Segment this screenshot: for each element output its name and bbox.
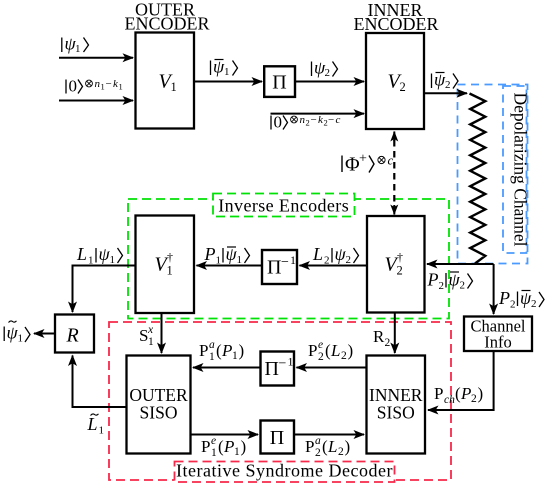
svg-text:1: 1: [288, 355, 294, 369]
label ket psi1-bar: [211, 57, 238, 79]
svg-text:ch: ch: [444, 394, 455, 406]
svg-text:2: 2: [397, 264, 403, 278]
svg-text:1: 1: [209, 351, 215, 363]
label R2 syndrome: [373, 327, 391, 349]
svg-text:2: 2: [471, 393, 477, 405]
svg-text:0: 0: [274, 113, 283, 132]
svg-text:−: −: [328, 114, 334, 126]
svg-text:a: a: [315, 435, 321, 447]
wire outer siso left then up to R: [73, 356, 127, 408]
svg-text:2: 2: [510, 299, 516, 311]
svg-text:1: 1: [101, 82, 105, 92]
wire outer siso to PI (decoder): [191, 434, 258, 436]
svg-text:R: R: [66, 325, 79, 347]
svg-text:c: c: [388, 153, 394, 168]
svg-text:Φ: Φ: [345, 154, 360, 176]
svg-text:1: 1: [75, 43, 81, 55]
wire psi1 input arrow: [59, 57, 133, 59]
svg-text:P: P: [460, 384, 471, 403]
recovery box R: [55, 315, 94, 353]
svg-text:ENCODER: ENCODER: [354, 14, 439, 34]
svg-text:1: 1: [211, 447, 217, 459]
svg-text:2: 2: [306, 118, 310, 128]
svg-text:−: −: [279, 357, 287, 372]
svg-text:2: 2: [324, 255, 330, 267]
label ket psi1 input: [62, 34, 89, 56]
label ket psi2-bar: [432, 70, 459, 92]
svg-text:): ): [241, 437, 247, 456]
svg-text:): ): [348, 341, 354, 360]
inverse permutation box PI-inverse (decoder): [261, 352, 295, 386]
label L1 ket psi1: [76, 244, 123, 267]
svg-text:1: 1: [167, 264, 173, 278]
label P1e(P1): [201, 435, 246, 459]
label P1 ket psi1-bar: [204, 244, 250, 267]
svg-text:2: 2: [531, 298, 537, 310]
svg-text:Π: Π: [272, 72, 286, 94]
svg-text:0: 0: [69, 77, 78, 96]
svg-text:P: P: [434, 384, 443, 403]
svg-text:): ): [345, 437, 351, 456]
iterative syndrome decoder dashed box (red): [109, 322, 451, 480]
inverse permutation box PI-minus (middle): [262, 250, 297, 284]
svg-text:1: 1: [234, 446, 240, 458]
wire V2 output to channel: [425, 92, 468, 94]
label ket phi+ entanglement: [342, 152, 394, 176]
svg-text:2: 2: [460, 280, 466, 292]
svg-text:1: 1: [216, 255, 222, 267]
svg-text:Iterative Syndrome Decoder: Iterative Syndrome Decoder: [176, 461, 393, 481]
svg-text:L: L: [327, 437, 337, 456]
label Pch(P2): [434, 384, 483, 406]
svg-text:2: 2: [341, 350, 347, 362]
svg-text:2: 2: [325, 67, 331, 79]
svg-text:1: 1: [232, 350, 238, 362]
svg-text:1: 1: [224, 66, 230, 78]
svg-text:): ): [239, 341, 245, 360]
svg-text:1: 1: [119, 82, 123, 92]
wire channel corner down to channel info: [493, 264, 495, 314]
label P2e(L2): [308, 339, 353, 363]
wire PI to V2: [296, 81, 365, 83]
depolarizing channel zigzag: [470, 94, 486, 264]
svg-text:†: †: [397, 250, 403, 264]
svg-text:e: e: [211, 435, 216, 447]
svg-text:Depolarizing Channel: Depolarizing Channel: [511, 92, 531, 246]
svg-text:−: −: [106, 78, 112, 90]
svg-text:a: a: [209, 339, 215, 351]
wire V1 to PI: [195, 81, 263, 83]
svg-text:P: P: [498, 288, 510, 308]
svg-text:1: 1: [88, 255, 94, 267]
wire V1-dagger left then down to R: [73, 266, 136, 313]
svg-text:P: P: [308, 341, 317, 360]
inverse encoders label box (green): [213, 194, 355, 217]
svg-text:1: 1: [99, 425, 105, 437]
svg-text:P: P: [204, 244, 216, 264]
label L2 ket psi2: [312, 244, 359, 267]
svg-text:P: P: [223, 437, 234, 456]
wire R output left: [34, 333, 54, 335]
inner siso box: [367, 356, 426, 454]
label P2a(L2): [305, 435, 350, 459]
svg-text:2: 2: [318, 351, 324, 363]
wire entanglement dashed phi+ between V2 and V2-dagger: [390, 131, 398, 215]
svg-text:Π: Π: [265, 358, 279, 380]
label P1a(P1): [199, 339, 244, 363]
iterative syndrome decoder label box (red): [175, 461, 395, 483]
svg-text:ENCODER: ENCODER: [125, 14, 210, 34]
svg-text:P: P: [427, 270, 439, 290]
svg-text:+: +: [359, 152, 367, 167]
svg-text:Info: Info: [484, 333, 512, 352]
svg-text:R: R: [373, 327, 385, 346]
permutation box PI (top): [264, 66, 295, 97]
svg-text:P: P: [305, 437, 314, 456]
label INNER ENCODER title: [354, 0, 439, 34]
wire inner siso to PI-inverse: [297, 367, 367, 369]
svg-text:x: x: [147, 324, 154, 336]
label OUTER ENCODER title: [125, 0, 210, 34]
encoder V2 box: [366, 33, 424, 129]
label P2 ket psi2-bar (to channel info): [498, 288, 544, 311]
wire PI to inner siso (decoder): [295, 434, 365, 436]
label L1-tilde: [87, 414, 105, 437]
svg-text:SISO: SISO: [140, 403, 178, 423]
inverse encoder V1-dagger box: [136, 216, 195, 314]
svg-text:e: e: [318, 339, 323, 351]
svg-text:1: 1: [148, 336, 154, 348]
svg-text:2: 2: [315, 447, 321, 459]
wire V2-dagger to PI-minus: [300, 265, 367, 267]
wire channel info down then left to inner siso: [428, 352, 494, 411]
svg-text:L: L: [76, 244, 87, 264]
svg-text:L: L: [330, 341, 340, 360]
label S1x syndrome: [139, 324, 154, 348]
label ket psi1-tilde output: [4, 321, 30, 345]
svg-text:†: †: [167, 250, 173, 264]
inverse encoder V2-dagger box: [367, 216, 425, 313]
label ket zero n2-k2-c input: [271, 113, 341, 132]
wire PI-inverse to outer siso: [193, 367, 260, 369]
svg-text:Inverse Encoders: Inverse Encoders: [218, 196, 349, 216]
svg-text:2: 2: [385, 337, 391, 349]
svg-text:c: c: [336, 114, 341, 126]
svg-text:Π: Π: [270, 427, 284, 449]
label ket zero n1-k1 input: [66, 77, 123, 96]
depolarizing channel inner label box (blue): [503, 86, 531, 253]
svg-text:P: P: [221, 341, 232, 360]
wire V2-dagger syndrome down to inner siso: [394, 313, 396, 353]
svg-text:2: 2: [338, 446, 344, 458]
svg-text:P: P: [201, 437, 210, 456]
svg-text:): ): [478, 384, 484, 403]
svg-text:Π: Π: [267, 257, 281, 279]
svg-text:−: −: [281, 255, 289, 270]
wire zero-state input arrow to V2: [271, 113, 365, 115]
permutation box PI (decoder): [261, 421, 295, 454]
svg-text:1: 1: [237, 254, 243, 266]
wire V1-dagger syndrome down to outer siso: [161, 314, 163, 354]
wire PI-minus to V1-dagger: [197, 265, 262, 267]
encoder V1 box: [136, 33, 195, 129]
channel info box: [464, 317, 532, 352]
label ket psi2: [312, 58, 338, 80]
inverse encoders dashed box (green): [128, 199, 449, 319]
svg-text:L: L: [87, 414, 98, 434]
svg-text:L: L: [312, 244, 323, 264]
svg-text:1: 1: [290, 253, 296, 267]
depolarizing channel dashed box (blue): [458, 85, 528, 264]
outer siso box: [127, 356, 191, 454]
svg-text:2: 2: [439, 280, 445, 292]
svg-text:SISO: SISO: [377, 403, 415, 423]
svg-text:2: 2: [400, 80, 406, 94]
label P2 ket psi2-bar (into V2-dagger): [427, 270, 473, 293]
wire channel output to V2-dagger: [427, 263, 494, 265]
svg-text:2: 2: [445, 79, 451, 91]
svg-text:−: −: [311, 114, 317, 126]
wire zero-state input arrow to V1: [59, 100, 133, 102]
svg-text:1: 1: [171, 80, 177, 94]
svg-text:1: 1: [18, 333, 24, 345]
svg-text:2: 2: [346, 254, 352, 266]
svg-text:1: 1: [110, 254, 116, 266]
svg-text:P: P: [199, 341, 208, 360]
